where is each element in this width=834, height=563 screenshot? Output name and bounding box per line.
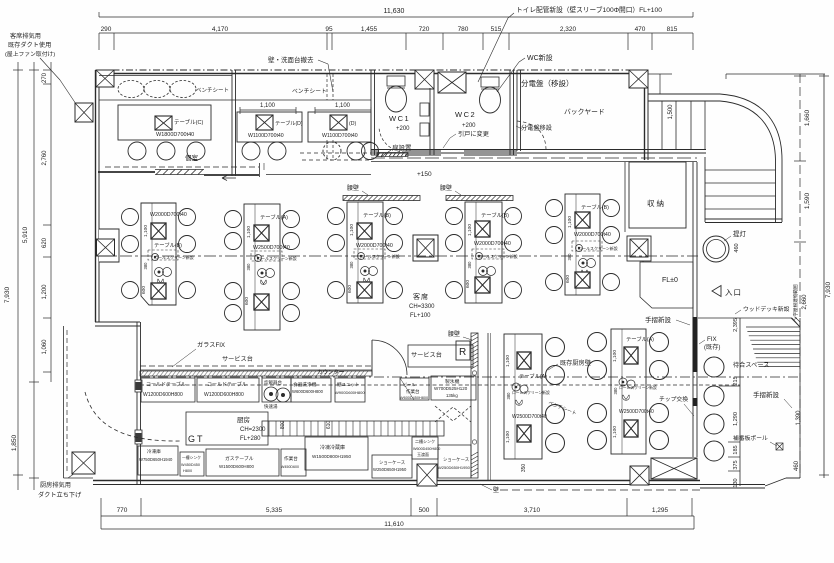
svg-text:テーブル(B): テーブル(B)	[363, 211, 391, 219]
svg-text:W600D600H800: W600D600H800	[292, 389, 324, 394]
svg-text:ロールスクリーン新設: ロールスクリーン新設	[478, 253, 518, 259]
ladder counter	[262, 421, 444, 436]
table column テーブル(B)	[565, 194, 600, 295]
work table right	[400, 378, 429, 400]
svg-text:1,100: 1,100	[467, 224, 473, 236]
svg-text:720: 720	[419, 26, 430, 33]
svg-text:ロールスクリーン新設: ロールスクリーン新設	[154, 254, 194, 260]
entrance label	[712, 286, 721, 297]
svg-text:既存厨房壁: 既存厨房壁	[560, 359, 591, 367]
svg-text:600: 600	[347, 285, 353, 293]
svg-text:1,100: 1,100	[246, 226, 252, 238]
chairs テーブル(B)	[122, 209, 139, 226]
waiting right boundary	[799, 318, 801, 478]
pillar bottom center	[417, 464, 437, 486]
right dimension lines	[794, 75, 806, 77]
svg-text:ベンチシート: ベンチシート	[292, 88, 327, 95]
svg-text:テーブル(C): テーブル(C)	[174, 118, 203, 126]
svg-text:1,590: 1,590	[804, 192, 811, 209]
section lines lower	[140, 376, 798, 378]
svg-text:1,100: 1,100	[349, 224, 355, 236]
svg-text:ウッドデッキ新設: ウッドデッキ新設	[743, 305, 790, 313]
svg-text:FL±0: FL±0	[662, 277, 678, 284]
left dimension 5,910 / 1,850	[33, 62, 35, 490]
svg-text:CH=3300: CH=3300	[409, 304, 435, 310]
FL0 area outline	[640, 262, 693, 308]
svg-text:ロールスクリーン新設: ロールスクリーン新設	[578, 245, 618, 251]
svg-text:1,100: 1,100	[505, 355, 511, 367]
table D1 chairs	[242, 142, 260, 160]
svg-text:380: 380	[567, 253, 572, 261]
svg-text:作業台: 作業台	[284, 455, 298, 462]
svg-text:1,500: 1,500	[668, 104, 674, 120]
svg-text:5,335: 5,335	[266, 507, 283, 514]
svg-text:W1100D700t40: W1100D700t40	[322, 133, 358, 139]
kitchen east wall line	[487, 333, 489, 480]
svg-text:壁・洗面台撤去: 壁・洗面台撤去	[268, 55, 314, 64]
svg-text:W2500D700t40: W2500D700t40	[619, 409, 654, 415]
table D1 dimension	[240, 109, 296, 111]
svg-text:(屋上ファン取付け): (屋上ファン取付け)	[5, 50, 55, 58]
svg-text:4,170: 4,170	[212, 26, 229, 33]
svg-text:380: 380	[246, 263, 251, 271]
rice cooker unit	[262, 378, 291, 402]
counter door arc	[371, 340, 373, 375]
svg-text:135kg: 135kg	[446, 393, 458, 398]
svg-text:515: 515	[491, 26, 502, 33]
table column テーブル(B)	[141, 203, 176, 305]
svg-text:ダクト立ち下げ: ダクト立ち下げ	[38, 491, 82, 499]
svg-text:作業台: 作業台	[406, 388, 420, 395]
table column テーブル(A)	[244, 204, 280, 330]
deck boundary	[698, 317, 792, 319]
svg-text:7,930: 7,930	[4, 286, 11, 303]
svg-text:FL+100: FL+100	[410, 313, 431, 319]
svg-text:380: 380	[613, 387, 618, 395]
svg-text:冷凍庫: 冷凍庫	[147, 448, 161, 455]
private room divider wall	[231, 70, 233, 176]
svg-text:W1200D600H800: W1200D600H800	[143, 392, 183, 398]
svg-text:2,395: 2,395	[733, 318, 739, 332]
svg-text:610: 610	[326, 421, 332, 430]
lantern	[703, 236, 729, 262]
wood deck hatch	[746, 326, 800, 328]
lower box テーブル(A)	[254, 294, 269, 310]
WC2 right wall	[509, 70, 511, 155]
private room rail	[105, 166, 259, 168]
svg-text:1,850: 1,850	[11, 434, 18, 451]
under-counter fridge	[412, 437, 438, 459]
svg-text:380: 380	[467, 261, 472, 269]
svg-text:待合スペース: 待合スペース	[733, 361, 769, 369]
WC1 door jambs	[420, 103, 429, 116]
svg-text:3,710: 3,710	[524, 507, 541, 514]
svg-text:130: 130	[733, 478, 739, 487]
WC divider wall	[429, 88, 431, 155]
waiting chairs	[704, 357, 724, 377]
svg-text:1,100: 1,100	[260, 103, 276, 109]
WC1 toilet	[387, 76, 405, 86]
storage room	[629, 162, 686, 228]
cold table 2	[197, 378, 259, 402]
roll screen テーブル(B)	[148, 250, 178, 260]
svg-text:冷凍冷蔵庫: 冷凍冷蔵庫	[320, 444, 345, 451]
WC bottom wall	[371, 150, 379, 152]
svg-text:1,295: 1,295	[652, 507, 669, 514]
top dimension segments	[99, 32, 693, 34]
svg-text:770: 770	[117, 507, 128, 514]
svg-text:(D): (D)	[349, 121, 356, 127]
svg-text:W600D450H800: W600D450H800	[413, 447, 440, 451]
svg-text:FIX: FIX	[707, 336, 717, 343]
svg-text:サービス台: サービス台	[222, 355, 253, 363]
upper box テーブル(A)	[517, 352, 531, 369]
fridge freezer	[305, 437, 368, 470]
lower box テーブル(A)	[624, 420, 638, 437]
stair dim 1500	[659, 74, 661, 94]
table D2 chairs	[323, 142, 341, 160]
svg-text:11,630: 11,630	[384, 8, 405, 15]
svg-text:厨房排気用: 厨房排気用	[40, 481, 71, 489]
svg-text:客席排気用: 客席排気用	[10, 32, 41, 40]
svg-text:収納: 収納	[647, 198, 666, 208]
svg-text:600: 600	[565, 275, 571, 283]
left dimension segments	[50, 62, 52, 382]
svg-text:1,455: 1,455	[361, 26, 378, 33]
svg-text:1,100: 1,100	[335, 103, 351, 109]
svg-text:玉渡面: 玉渡面	[417, 451, 429, 457]
svg-text:270: 270	[42, 72, 48, 83]
left wall	[95, 70, 97, 322]
pillar WC2 wide	[438, 72, 466, 93]
svg-text:ビール: ビール	[403, 381, 416, 387]
upper box テーブル(A)	[624, 347, 638, 364]
svg-text:W2000D700t40: W2000D700t40	[150, 212, 187, 218]
table C chairs	[128, 142, 146, 160]
svg-text:ロールスクリーン新設: ロールスクリーン新設	[512, 390, 550, 395]
svg-text:ショーケース: ショーケース	[443, 456, 469, 463]
svg-text:W1500D600H800: W1500D600H800	[219, 464, 254, 469]
right wall upper	[644, 70, 646, 160]
svg-text:(既存): (既存)	[704, 343, 721, 351]
svg-text:350: 350	[521, 464, 527, 473]
pillar left wall middle	[99, 229, 119, 262]
svg-text:1,290: 1,290	[733, 412, 739, 426]
lower table column テーブル(A)	[504, 334, 542, 459]
svg-text:1,660: 1,660	[804, 109, 811, 126]
bottom wall	[93, 480, 700, 482]
bottom dimension segments	[101, 515, 694, 517]
svg-text:W1800D700t40: W1800D700t40	[156, 132, 194, 138]
svg-text:780: 780	[458, 26, 469, 33]
svg-text:カウンター: カウンター	[317, 368, 345, 376]
svg-text:FL+280: FL+280	[240, 436, 261, 442]
pillar WC1 right	[415, 70, 434, 89]
ice maker	[431, 376, 476, 400]
svg-text:棚ユニット: 棚ユニット	[337, 381, 360, 388]
lower box テーブル(B)	[357, 282, 372, 298]
FIX black bar	[693, 317, 698, 372]
chairs テーブル(A)	[650, 333, 669, 352]
upper box テーブル(B)	[575, 212, 590, 228]
svg-text:コールドテーブル: コールドテーブル	[146, 381, 186, 388]
chairs テーブル(A)	[546, 338, 565, 357]
svg-text:W1200D600H800: W1200D600H800	[204, 392, 244, 398]
svg-text:W700D525H120: W700D525H120	[434, 386, 468, 391]
svg-text:ガラスFIX: ガラスFIX	[197, 341, 225, 349]
folding door dashed	[435, 407, 471, 422]
svg-text:W1100D700t40: W1100D700t40	[248, 133, 284, 139]
svg-text:炊飯器台: 炊飯器台	[264, 379, 282, 386]
svg-text:290: 290	[101, 26, 112, 33]
wall below fix	[692, 372, 694, 402]
svg-text:W600D450H800: W600D450H800	[400, 396, 428, 400]
bench seat back line	[99, 75, 232, 77]
removed wall dashed	[326, 74, 328, 100]
stair upper treads vertical	[661, 101, 663, 150]
svg-text:入口: 入口	[725, 288, 742, 297]
bottom wall dashed inner	[500, 489, 700, 491]
backyard walls	[516, 70, 518, 151]
table C	[118, 105, 211, 140]
upper box テーブル(A)	[254, 225, 269, 241]
WC2 toilet	[481, 77, 499, 87]
lower box テーブル(B)	[575, 272, 590, 288]
svg-text:WC1: WC1	[389, 114, 410, 123]
svg-text:既存ダクト使用: 既存ダクト使用	[8, 41, 51, 49]
svg-text:1,100: 1,100	[612, 350, 618, 362]
svg-text:1,060: 1,060	[42, 339, 48, 355]
top wall	[99, 69, 648, 71]
gas table	[206, 449, 279, 476]
kitchen west wall	[136, 322, 138, 484]
svg-text:W450D450: W450D450	[181, 463, 200, 467]
stair curve inner	[720, 101, 776, 160]
svg-text:W900D600H800: W900D600H800	[335, 390, 365, 395]
left lower boundary wall	[95, 321, 140, 323]
svg-text:WC新設: WC新設	[527, 53, 553, 62]
table column テーブル(B)	[465, 202, 502, 303]
svg-text:800: 800	[280, 421, 286, 430]
svg-text:2,760: 2,760	[42, 150, 48, 166]
left dimension 7,930	[17, 62, 19, 490]
svg-text:1,100: 1,100	[505, 431, 511, 443]
svg-text:ベンチシート: ベンチシート	[196, 87, 229, 94]
svg-text:製氷機: 製氷機	[445, 378, 460, 385]
svg-text:バックヤード: バックヤード	[564, 108, 605, 116]
svg-text:腰壁: 腰壁	[347, 184, 359, 192]
svg-text:WC2: WC2	[455, 110, 476, 119]
pillar outside left	[75, 103, 93, 122]
waist wall hatched 1	[343, 196, 420, 201]
backyard door dashed	[517, 121, 546, 149]
svg-text:470: 470	[635, 26, 646, 33]
svg-text:460: 460	[794, 460, 800, 471]
lower box テーブル(B)	[151, 283, 166, 299]
svg-text:ロールスクリーン新設: ロールスクリーン新設	[619, 385, 657, 390]
table D1	[237, 112, 302, 142]
counter band	[140, 365, 372, 367]
pillar center hall	[413, 235, 438, 261]
svg-text:W1500D800H1950: W1500D800H1950	[312, 454, 352, 459]
svg-text:個室: 個室	[185, 153, 199, 162]
svg-text:壁: 壁	[493, 486, 499, 494]
roof line right	[726, 73, 825, 75]
svg-text:テーブル(B): テーブル(B)	[154, 241, 182, 249]
stair left rail	[704, 157, 706, 222]
svg-text:185: 185	[733, 445, 739, 454]
pillar bottom right with bench	[630, 466, 649, 485]
svg-text:ガステーブル: ガステーブル	[225, 455, 254, 462]
svg-text:テーブル(D): テーブル(D)	[275, 119, 303, 127]
svg-text:W2500D700t40: W2500D700t40	[512, 414, 547, 420]
svg-text:W2000D700t40: W2000D700t40	[574, 232, 611, 238]
svg-text:215: 215	[733, 376, 739, 385]
svg-text:コールドテーブル: コールドテーブル	[207, 381, 247, 388]
svg-text:380: 380	[506, 392, 511, 400]
upper box テーブル(B)	[151, 223, 166, 239]
svg-text:R: R	[459, 347, 466, 358]
roof range dashed line	[799, 74, 801, 478]
freezer	[138, 446, 178, 475]
svg-text:1,390: 1,390	[796, 410, 802, 426]
svg-text:600: 600	[141, 286, 147, 294]
upper box テーブル(B)	[475, 221, 490, 237]
pillar bottom-left outside	[72, 452, 95, 474]
section line upper	[99, 255, 698, 257]
lower box テーブル(B)	[475, 277, 490, 293]
shelf unit	[335, 378, 365, 402]
svg-text:GT: GT	[188, 434, 205, 444]
entry wall	[692, 162, 694, 317]
svg-text:1,100: 1,100	[567, 216, 573, 228]
svg-text:1,100: 1,100	[612, 426, 618, 438]
svg-text:ショーケース: ショーケース	[379, 459, 405, 466]
pillar top-right	[629, 70, 648, 88]
svg-text:W250D650H1950: W250D650H1950	[438, 465, 471, 470]
cold table 1	[141, 378, 195, 402]
svg-text:チップ交換: チップ交換	[659, 395, 688, 403]
svg-text:テーブル(A): テーブル(A)	[519, 372, 547, 380]
chairs テーブル(B)	[328, 208, 345, 225]
svg-text:460: 460	[734, 243, 740, 252]
pillar right storage	[627, 236, 651, 261]
svg-text:375: 375	[733, 460, 739, 469]
upper box テーブル(B)	[357, 223, 372, 239]
WC1 left wall	[370, 70, 372, 155]
roll screen テーブル(A)	[251, 251, 282, 261]
svg-text:2,660: 2,660	[802, 294, 808, 310]
svg-text:W250D650H1950: W250D650H1950	[373, 467, 407, 472]
svg-text:620: 620	[42, 237, 48, 248]
waist wall hatched 2	[446, 196, 513, 201]
svg-text:扉設置: 扉設置	[392, 143, 412, 152]
bottom wall right section	[700, 484, 765, 486]
lower box テーブル(A)	[517, 425, 531, 442]
roll screen テーブル(B)	[354, 249, 385, 259]
bottom dimension 11,610	[101, 528, 694, 530]
svg-text:食器洗浄機: 食器洗浄機	[293, 381, 317, 388]
pillar top-left	[96, 70, 114, 87]
table D2 dimension	[315, 109, 371, 111]
svg-text:1,200: 1,200	[42, 284, 48, 300]
svg-text:11,610: 11,610	[384, 521, 404, 528]
kitchen entry door arc dashed	[85, 392, 182, 441]
svg-text:V字屋根建物範囲: V字屋根建物範囲	[792, 284, 799, 320]
svg-text:テーブル(B): テーブル(B)	[581, 203, 609, 211]
svg-text:快速湯: 快速湯	[264, 403, 278, 410]
svg-text:600: 600	[244, 297, 250, 305]
svg-text:手摺新設: 手摺新設	[753, 390, 780, 399]
chairs テーブル(B)	[446, 208, 463, 225]
svg-text:厨房: 厨房	[237, 415, 250, 424]
svg-text:手摺新設: 手摺新設	[645, 315, 672, 324]
stair curve outer	[720, 94, 782, 160]
svg-text:815: 815	[667, 26, 678, 33]
svg-text:5,910: 5,910	[22, 226, 29, 243]
svg-text:客席: 客席	[413, 292, 429, 301]
svg-text:腰壁: 腰壁	[448, 330, 460, 338]
service counter right	[408, 345, 473, 367]
roll screen テーブル(A)	[512, 383, 520, 391]
svg-text:380: 380	[143, 262, 148, 270]
svg-text:補番板ポール: 補番板ポール	[733, 434, 768, 442]
svg-text:600: 600	[465, 280, 471, 288]
svg-text:+200: +200	[462, 123, 476, 129]
svg-text:95: 95	[325, 26, 333, 33]
chairs テーブル(A)	[225, 211, 242, 228]
bench ellipses	[118, 81, 144, 98]
backyard bottom wall	[371, 149, 706, 151]
WC1 door swing	[379, 127, 405, 152]
svg-text:引戸に変更: 引戸に変更	[458, 130, 489, 138]
roll screen テーブル(A)	[619, 378, 627, 386]
stair top landing band	[648, 93, 720, 95]
roll screen テーブル(B)	[472, 249, 504, 259]
showcase 1	[372, 455, 412, 478]
svg-text:ロールスクリーン新設: ロールスクリーン新設	[360, 253, 400, 259]
dish washer	[291, 378, 331, 402]
svg-text:二槽シンク: 二槽シンク	[415, 438, 435, 444]
table D2	[308, 112, 371, 142]
svg-text:トイレ配管新設（壁スリーブ100Φ開口）FL+100: トイレ配管新設（壁スリーブ100Φ開口）FL+100	[516, 5, 662, 14]
svg-text:380: 380	[349, 261, 354, 269]
work table bottom	[281, 449, 306, 476]
svg-text:+200: +200	[396, 126, 410, 132]
svg-text:1,100: 1,100	[143, 225, 149, 237]
sink 1	[180, 452, 204, 476]
svg-text:+150: +150	[417, 171, 432, 178]
svg-text:サービス台: サービス台	[411, 351, 442, 359]
outer right dim line	[823, 74, 825, 478]
roll screen テーブル(B)	[572, 241, 602, 251]
svg-text:分電盤（移設）: 分電盤（移設）	[521, 78, 574, 88]
svg-text:500: 500	[419, 507, 430, 514]
stair right rails	[775, 160, 777, 222]
showcase 2	[438, 445, 471, 478]
lower table column テーブル(A)	[611, 329, 646, 454]
svg-text:ロールスクリーン新設: ロールスクリーン新設	[257, 255, 297, 261]
table column テーブル(B)	[347, 202, 383, 303]
svg-text:一槽シンク: 一槽シンク	[182, 455, 201, 460]
chairs テーブル(B)	[546, 200, 563, 217]
svg-text:腰壁: 腰壁	[440, 184, 452, 192]
svg-text:提灯: 提灯	[733, 229, 747, 238]
dashed removed-wall line down	[326, 140, 328, 160]
svg-text:H800: H800	[183, 469, 192, 473]
kitchen work island	[186, 412, 268, 445]
waist wall vertical hatched	[471, 333, 478, 478]
